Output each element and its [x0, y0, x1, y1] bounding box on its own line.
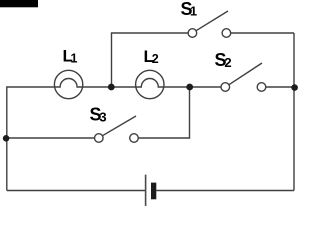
junction node on left vertical (S3 branch): [3, 135, 10, 142]
switch S3: [95, 116, 139, 142]
wire: S3 branch right segment with corner up to node B: [138, 87, 189, 138]
battery: long thin plate: [145, 175, 147, 206]
wire: bottom left segment to battery: [7, 190, 146, 192]
wire: lamp row between L1 and L2: [83, 86, 136, 88]
wire: right vertical (top corner down to bottom wire): [293, 33, 295, 191]
wire: S3 branch left segment: [7, 137, 95, 139]
wire: left vertical (lamp row down to bottom wire): [7, 87, 55, 191]
switch S2: [221, 63, 266, 91]
wire: top branch horizontal right segment (S1 to right vertical): [231, 32, 294, 34]
junction node B (between L2 and S2, to S3 branch): [186, 84, 193, 91]
lamp L1: [54, 70, 82, 98]
battery: short thick plate: [151, 183, 156, 200]
wire: S2 right terminal to right vertical: [265, 86, 294, 88]
junction node on right vertical (S2 branch): [291, 84, 298, 91]
wire: top branch horizontal left segment (corner to S1): [112, 33, 189, 87]
wire: bottom right segment from battery: [156, 190, 294, 192]
junction node A (between L1 and L2, to top branch): [108, 84, 115, 91]
svg-text:S1: S1: [181, 0, 198, 19]
wire: lamp row L2 to S2 left terminal: [164, 86, 222, 88]
lamp L2: [136, 70, 164, 98]
black bar (crop artifact top-left): [0, 0, 38, 7]
switch S1: [188, 11, 231, 37]
